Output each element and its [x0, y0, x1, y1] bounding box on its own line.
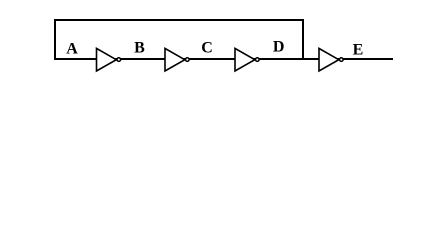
svg-text:D: D [273, 38, 285, 55]
svg-text:A: A [66, 41, 78, 58]
svg-text:B: B [134, 39, 145, 56]
svg-text:E: E [353, 42, 364, 59]
svg-text:C: C [201, 40, 213, 57]
